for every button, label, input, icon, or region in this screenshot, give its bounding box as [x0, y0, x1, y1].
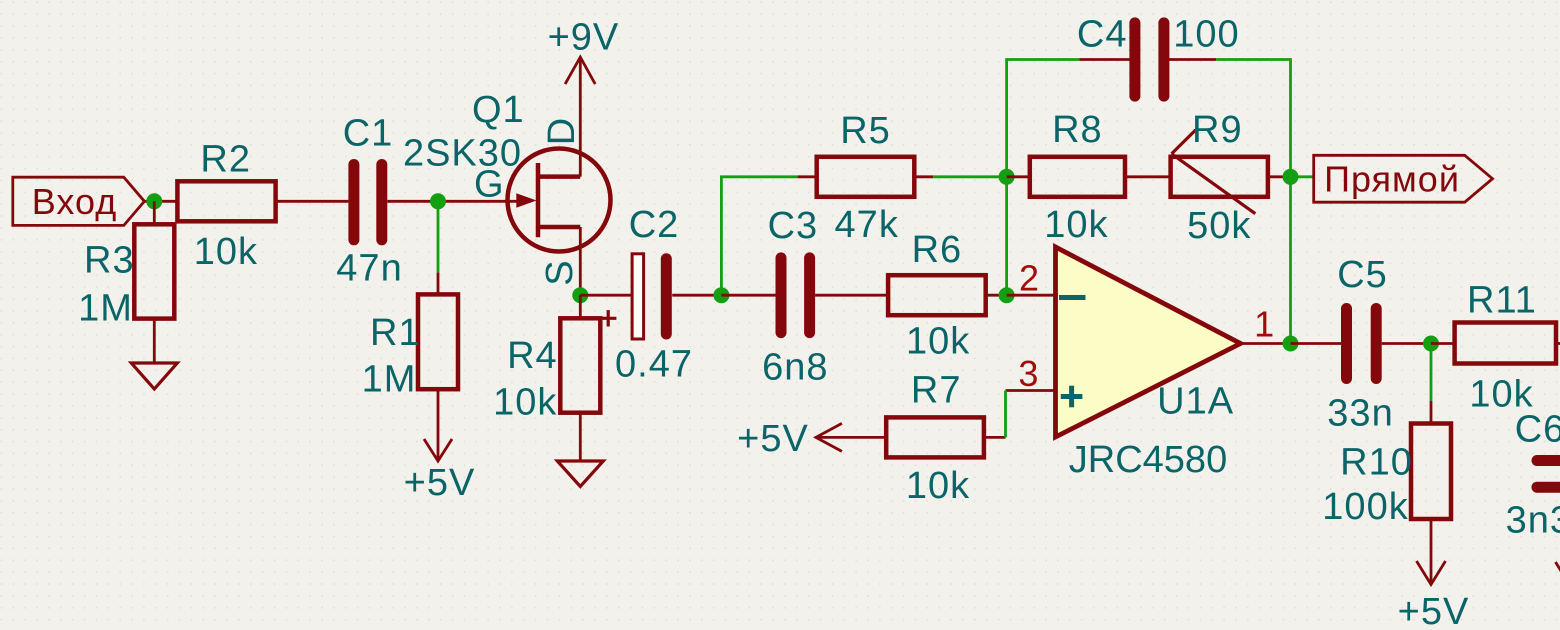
wire output to C5 — [1291, 342, 1342, 345]
svg-text:C2: C2 — [629, 204, 680, 246]
potentiometer R9 — [1171, 109, 1291, 247]
node C2/C3 junction — [713, 287, 729, 303]
transistor Q1 — [403, 89, 611, 286]
svg-text:Прямой: Прямой — [1324, 159, 1460, 200]
wire R2 to C1 — [276, 200, 349, 203]
svg-text:R3: R3 — [84, 239, 135, 281]
power +5V (down arrow) at R10 — [1398, 561, 1470, 630]
resistor R5 — [798, 110, 934, 246]
node output junction — [1283, 336, 1299, 352]
svg-text:+5V: +5V — [404, 462, 476, 504]
resistor R3 — [78, 201, 174, 363]
ground symbol at R4 — [557, 461, 603, 487]
power +5V (down arrow) at C6, clipped — [1556, 562, 1560, 586]
svg-text:R6: R6 — [912, 229, 963, 271]
global label Вход — [13, 177, 145, 225]
resistor R8 — [1007, 109, 1171, 246]
ground symbol at R3 — [131, 363, 177, 389]
wire feedback vertical top — [1007, 60, 1080, 296]
svg-text:1M: 1M — [78, 288, 133, 330]
svg-text:+9V: +9V — [548, 17, 620, 59]
svg-text:6n8: 6n8 — [762, 347, 828, 389]
node input junction — [146, 193, 162, 209]
svg-text:3n3: 3n3 — [1506, 500, 1560, 542]
wire junction to C3 — [721, 294, 775, 297]
wire C4 right down to output — [1216, 60, 1290, 344]
wire C3 to R6 — [815, 294, 888, 297]
svg-text:3: 3 — [1018, 353, 1038, 394]
capacitor C5 — [1327, 254, 1393, 435]
wire input label to R2 — [144, 200, 177, 203]
svg-text:100: 100 — [1173, 14, 1239, 56]
svg-text:50k: 50k — [1187, 205, 1251, 247]
wire junction to label — [1291, 175, 1314, 178]
svg-text:1: 1 — [1254, 303, 1274, 344]
svg-text:C4: C4 — [1077, 14, 1128, 56]
svg-text:R8: R8 — [1052, 109, 1103, 151]
svg-text:G: G — [474, 163, 505, 205]
svg-text:C3: C3 — [768, 205, 819, 247]
wire R5 to feedback node — [933, 175, 1006, 178]
node feedback junction — [999, 169, 1015, 185]
power +9V (up arrow) — [548, 17, 620, 85]
power +5V (left arrow) at R7 — [737, 418, 886, 460]
node C5/R11 junction — [1423, 336, 1439, 352]
global label Прямой — [1314, 155, 1493, 202]
resistor R10 — [1322, 401, 1451, 582]
svg-text:Q1: Q1 — [472, 89, 525, 131]
wire junction up and right to R5 — [721, 177, 797, 295]
svg-text:10k: 10k — [906, 465, 970, 507]
wire gate junction down to R1 — [437, 201, 440, 272]
capacitor C1 — [336, 113, 402, 290]
svg-text:47k: 47k — [835, 204, 899, 246]
svg-text:33n: 33n — [1327, 393, 1393, 435]
svg-text:10k: 10k — [906, 321, 970, 363]
svg-text:R2: R2 — [200, 138, 251, 180]
node inverting input junction — [999, 287, 1015, 303]
svg-text:D: D — [541, 117, 583, 145]
resistor R2 — [177, 138, 275, 273]
svg-text:C5: C5 — [1337, 254, 1388, 296]
svg-text:C1: C1 — [343, 113, 394, 155]
op-amp U1A — [1006, 247, 1291, 481]
svg-text:100k: 100k — [1322, 486, 1408, 528]
wire R7 up to pin 3 — [1004, 391, 1007, 438]
node source junction — [572, 287, 588, 303]
svg-text:R4: R4 — [507, 335, 558, 377]
svg-text:JRC4580: JRC4580 — [1069, 439, 1227, 481]
svg-text:R11: R11 — [1467, 280, 1537, 322]
resistor R6 — [888, 229, 1007, 363]
svg-text:S: S — [539, 259, 581, 285]
svg-text:U1A: U1A — [1157, 381, 1234, 423]
capacitor C6 — [1506, 408, 1560, 541]
capacitor C3 — [762, 205, 828, 389]
svg-text:+5V: +5V — [737, 418, 809, 460]
wire C2 to node — [672, 294, 721, 297]
wire drain up to +9V — [579, 59, 582, 177]
wire source junction to C2 — [580, 294, 632, 297]
svg-text:C6: C6 — [1515, 408, 1560, 450]
svg-text:+5V: +5V — [1398, 591, 1470, 630]
wire C5 to R11 node — [1382, 342, 1431, 345]
svg-text:47n: 47n — [336, 248, 402, 290]
svg-text:Вход: Вход — [32, 181, 117, 222]
node gate junction — [430, 193, 446, 209]
wire C1 to Q1 gate — [387, 200, 517, 203]
resistor R1 — [362, 273, 458, 459]
svg-text:10k: 10k — [493, 381, 557, 423]
svg-text:R7: R7 — [911, 370, 962, 412]
svg-text:1M: 1M — [362, 359, 417, 401]
resistor R7 — [886, 370, 1005, 507]
svg-text:0.47: 0.47 — [615, 343, 693, 385]
capacitor C2 (polarized) — [600, 204, 693, 385]
capacitor C4 — [1077, 14, 1240, 96]
svg-text:10k: 10k — [1044, 204, 1108, 246]
wire source down to junction — [579, 227, 582, 295]
pin name minus — [1059, 295, 1086, 300]
svg-text:2: 2 — [1019, 258, 1039, 299]
pin name plus — [1061, 394, 1083, 399]
svg-text:R5: R5 — [840, 110, 891, 152]
svg-text:R9: R9 — [1192, 109, 1243, 151]
node R9 output junction — [1283, 169, 1299, 185]
svg-text:R1: R1 — [370, 312, 421, 354]
svg-text:10k: 10k — [194, 231, 258, 273]
power +5V (down arrow) at R1 — [404, 439, 476, 504]
wire junction down to R10 — [1430, 344, 1433, 402]
resistor R4 — [493, 295, 600, 461]
svg-text:R10: R10 — [1340, 442, 1413, 484]
resistor R11 — [1431, 280, 1560, 416]
